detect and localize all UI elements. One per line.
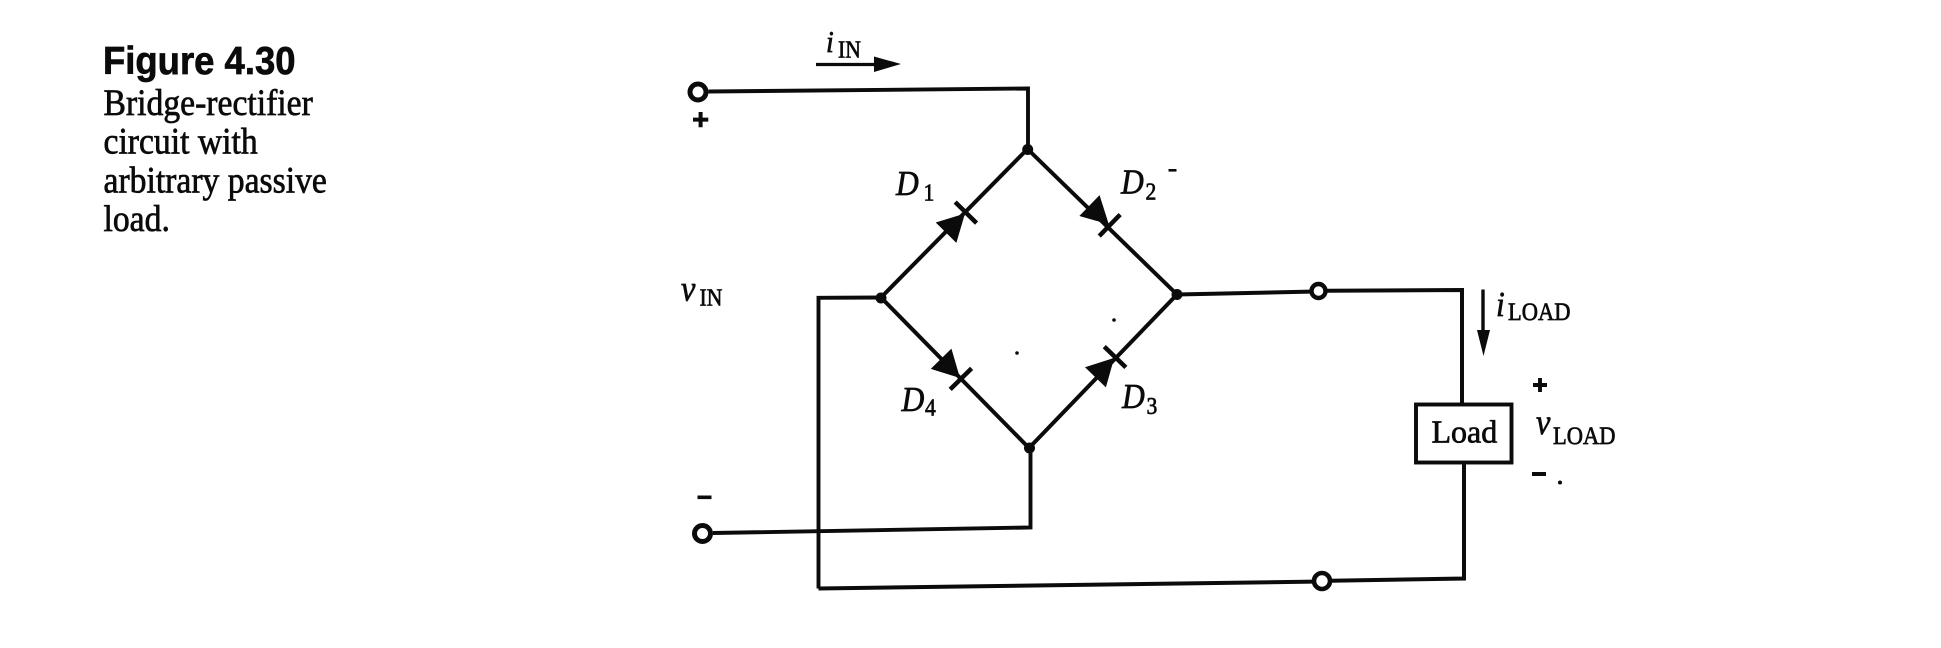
label i_IN with current arrow xyxy=(816,26,901,72)
svg-text:4: 4 xyxy=(925,395,936,421)
svg-text:v: v xyxy=(681,269,696,309)
svg-text:Figure 4.30: Figure 4.30 xyxy=(103,39,296,82)
svg-text:2: 2 xyxy=(1146,178,1157,204)
diode D4 (anode at left node, cathode toward bottom node) xyxy=(930,348,973,391)
label - (input polarity minus) xyxy=(698,496,712,500)
svg-text:arbitrary passive: arbitrary passive xyxy=(104,159,327,201)
svg-text:Load: Load xyxy=(1432,414,1498,450)
wire bridge arm left to bottom (through D4) xyxy=(881,298,1029,449)
caption: Figure 4.30 Bridge-rectifier circuit with arbitrary passive load. xyxy=(103,39,327,239)
label + (input polarity plus) xyxy=(693,112,708,127)
node bottom (bridge bottom junction dot) xyxy=(1024,443,1035,454)
svg-text:1: 1 xyxy=(924,180,935,206)
arrow i_LOAD (load current arrow) xyxy=(1477,290,1490,357)
svg-text:Bridge-rectifier: Bridge-rectifier xyxy=(104,82,314,124)
svg-text:D: D xyxy=(901,381,925,420)
label D2 xyxy=(1120,163,1156,205)
connector circle top (output upper terminal) xyxy=(1312,284,1326,298)
label D4 xyxy=(901,381,937,421)
svg-text:v: v xyxy=(1536,402,1551,442)
svg-text:IN: IN xyxy=(700,284,723,310)
terminal - (input negative terminal) xyxy=(695,526,711,542)
svg-text:load.: load. xyxy=(104,198,170,240)
label + (load polarity plus) xyxy=(1533,378,1547,392)
label D3 xyxy=(1121,377,1157,419)
svg-text:LOAD: LOAD xyxy=(1553,423,1615,450)
label v_LOAD xyxy=(1536,402,1615,450)
load box xyxy=(1416,405,1512,463)
wire bridge arm top to right (through D2) xyxy=(1028,149,1178,295)
svg-text:circuit with: circuit with xyxy=(104,120,259,162)
node left (bridge left junction dot) xyxy=(876,293,887,304)
diode D2 (anode at top node, cathode toward right node) xyxy=(1079,195,1122,238)
svg-text:D: D xyxy=(1121,377,1145,416)
node top (bridge top junction dot) xyxy=(1022,144,1033,155)
wire from + terminal to top bridge node xyxy=(709,89,1029,150)
connector circle bottom (output lower terminal) xyxy=(1314,573,1330,589)
label - (load polarity minus) xyxy=(1532,472,1546,476)
label i_LOAD xyxy=(1496,286,1570,327)
svg-text:LOAD: LOAD xyxy=(1508,299,1570,326)
diode D1 (anode at left node, cathode toward top node) xyxy=(935,200,978,243)
speck above D3 xyxy=(1112,318,1116,322)
label D1 xyxy=(895,165,934,206)
node right (bridge right junction dot) xyxy=(1172,289,1183,300)
wire from right node to top connector circle xyxy=(1177,292,1310,295)
svg-text:i: i xyxy=(826,26,834,60)
wire bridge arm left to top (through D1) xyxy=(881,149,1028,298)
wire from top connector to load top xyxy=(1327,290,1462,403)
svg-text:D: D xyxy=(895,165,919,204)
wire bottom rail from connector to load bottom xyxy=(1331,464,1465,581)
wire bridge arm bottom to right (through D3) xyxy=(1029,295,1177,449)
svg-text:IN: IN xyxy=(838,36,861,62)
speck near bridge center xyxy=(1015,351,1019,355)
terminal + (input positive terminal) xyxy=(690,84,706,100)
diode D3 (anode at bottom node, cathode toward right node) xyxy=(1085,345,1128,388)
wire bottom rail from left rail to bottom connector circle xyxy=(819,582,1314,589)
wire from left node down the left rail to bottom rail xyxy=(819,298,882,589)
svg-text:3: 3 xyxy=(1147,393,1158,419)
svg-text:D: D xyxy=(1120,163,1144,202)
label v_IN (input voltage) xyxy=(681,269,722,311)
wire from - terminal to bottom bridge node xyxy=(713,448,1031,533)
speck right of D2 xyxy=(1169,169,1177,172)
speck right of load minus xyxy=(1558,481,1562,485)
svg-text:i: i xyxy=(1496,286,1505,325)
